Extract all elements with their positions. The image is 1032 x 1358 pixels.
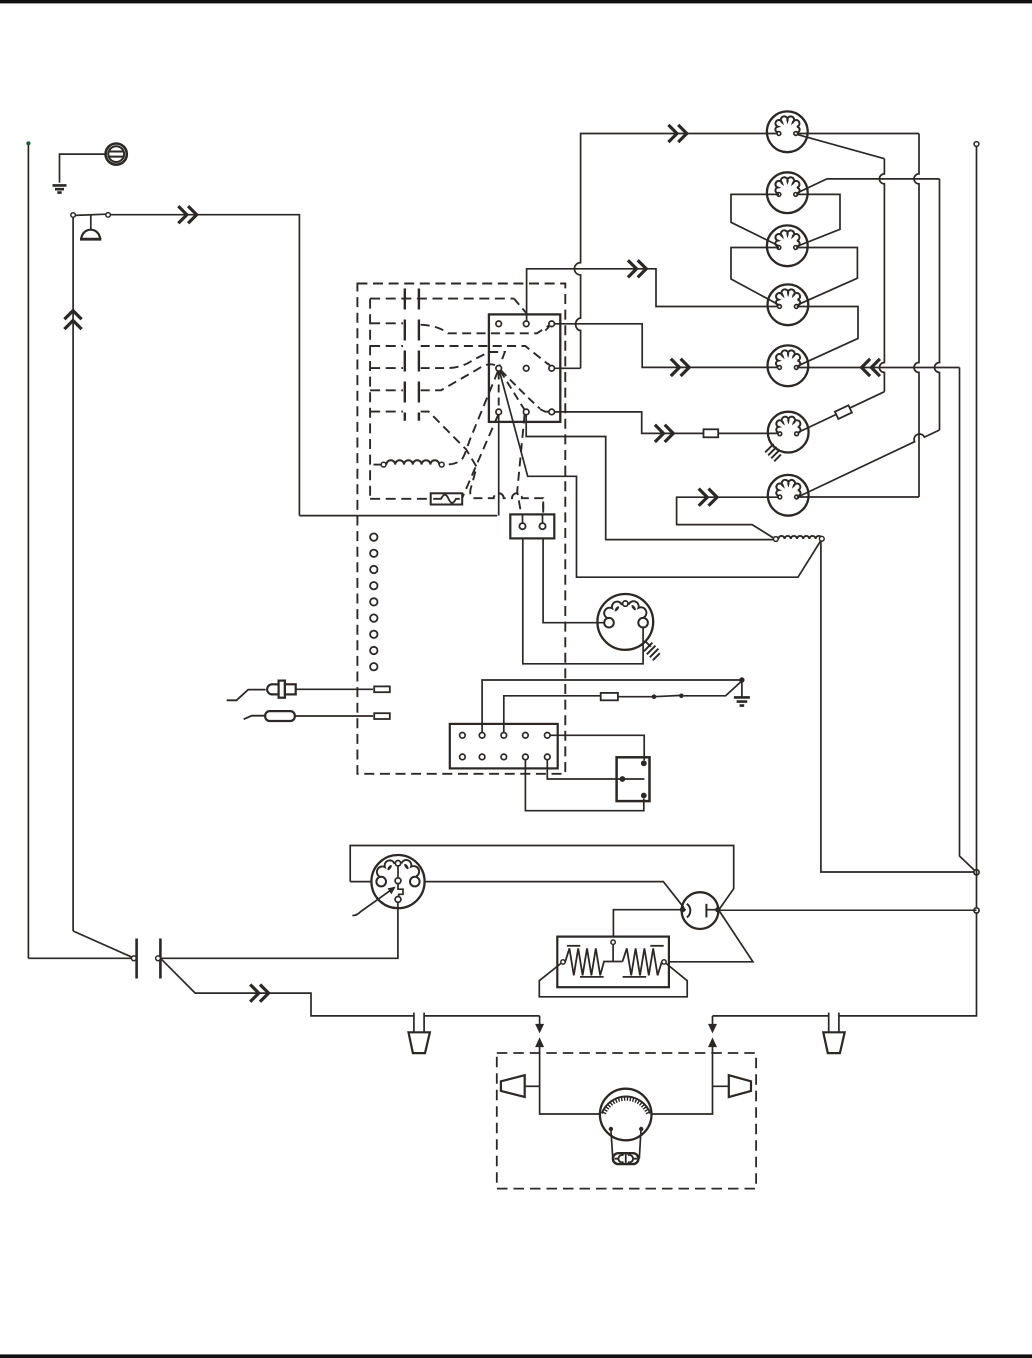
- ignition switch terminal T6: [549, 366, 555, 372]
- MT lead right: [639, 1130, 641, 1159]
- FP right lead: [706, 909, 715, 911]
- FP right contact bar: [705, 904, 707, 918]
- G1 stepped link: [398, 884, 403, 897]
- wire feed to starter arrow left: [539, 1016, 541, 1025]
- lamp L5: [768, 345, 809, 386]
- spark plug probe PR1 body: [285, 684, 296, 694]
- G1 left pin: [376, 877, 386, 887]
- T9 contact stub: [540, 409, 549, 412]
- dashed row2 to T3: [421, 325, 549, 334]
- cone terminal CT1: [501, 1075, 525, 1097]
- ignition coil W1 lead dash: [374, 464, 381, 466]
- wire T4 solid to magneto: [499, 371, 820, 577]
- 2pin connector C2 body: [510, 514, 554, 538]
- node ground junction J3: [739, 677, 744, 682]
- wire lamp7 left from magneto: [677, 497, 779, 538]
- C10 pin2 stub: [481, 724, 483, 733]
- terminal lug LG2: [374, 713, 390, 719]
- MT thermal capsule: [613, 1153, 639, 1164]
- bottom border rule: [0, 1354, 1032, 1358]
- spark plug probe PR1 collar: [279, 681, 285, 698]
- wire horn to frame: [110, 215, 299, 516]
- connector CN5 chevrons: [671, 359, 689, 376]
- ignition switch terminal T2: [523, 321, 529, 327]
- stator C5 right pin: [638, 618, 648, 628]
- connector arrow up left: [536, 1039, 543, 1047]
- ignition switch terminal T7: [496, 409, 502, 415]
- dashed row6 to 2pin connector: [421, 412, 544, 515]
- wire left feed into motor: [540, 1045, 600, 1114]
- interlock S1 left contact: [131, 956, 136, 961]
- wire FP left to resistor top: [613, 910, 682, 940]
- circuit breaker CB1 element: [433, 495, 460, 503]
- magneto coil MG winding: [778, 536, 821, 539]
- interlock S1 right contact: [156, 956, 161, 961]
- dashed T8 to 2pin connector: [517, 415, 524, 515]
- wire FP right to J2: [718, 909, 977, 911]
- R1 mounting bracket: [539, 964, 687, 997]
- ignition switch terminal T5: [523, 366, 529, 372]
- FP left lead: [684, 909, 686, 911]
- stator connector C5 body: [597, 594, 653, 650]
- node switch pivot: [652, 694, 657, 699]
- connector CN6b inline plug: [704, 429, 719, 437]
- module M1 body: [617, 757, 650, 801]
- lamp L6: [768, 412, 809, 453]
- connector CN7 chevrons: [668, 125, 686, 142]
- wire gauge left pin: [350, 881, 371, 883]
- spark plug probe PR1 lead: [227, 690, 266, 701]
- G1 pointer head: [388, 887, 395, 893]
- ignition switch terminal T8: [523, 409, 529, 415]
- vertical B with hops: [914, 134, 919, 498]
- G1 bottom pin: [395, 897, 401, 903]
- wire P1 to ground: [60, 154, 106, 183]
- switch blade: [654, 695, 681, 696]
- wire T2 up to harness: [527, 269, 779, 321]
- ladder row6 dashed: [370, 411, 403, 413]
- dashed row5 to T4: [421, 364, 497, 390]
- wire horn branch down: [72, 217, 74, 931]
- pin terminal cone PL2: [823, 1032, 844, 1053]
- connector CN10 chevrons: [699, 489, 717, 506]
- dashed T4 fan to T7: [498, 372, 500, 409]
- wire left bus to interlock: [28, 957, 131, 959]
- 2pin C2 pin2 stub: [542, 514, 544, 523]
- wire C10 pin5 top to module: [550, 735, 644, 760]
- wire lamp1 feed from T6 riser: [574, 134, 779, 369]
- G1 top pin link: [397, 866, 399, 877]
- stator C5 pole mark left: [614, 605, 620, 612]
- connector arrow down right: [709, 1024, 716, 1032]
- G1 winding garland: [377, 860, 395, 876]
- G1 center pin: [395, 878, 401, 884]
- vertical C with hop: [935, 179, 940, 430]
- ladder row2 dashed: [370, 322, 403, 324]
- MT commutator arc: [602, 1097, 651, 1114]
- wire T7 down-left: [498, 415, 500, 516]
- G1 pole mark right: [403, 863, 409, 870]
- MT brush dot right: [639, 1127, 643, 1131]
- wire T9 to lamp6: [555, 412, 779, 434]
- connector CN4 chevrons: [628, 260, 646, 277]
- pin terminal cone PL1 stem: [414, 1013, 424, 1033]
- stator C5 ground stub: [645, 641, 651, 647]
- ladder row3 dashed: [370, 345, 403, 347]
- FP left contact arc: [687, 904, 690, 918]
- R1 top terminal: [611, 940, 615, 944]
- power point P1 inner ring: [108, 146, 124, 162]
- right cone terminal bar: [713, 1085, 729, 1087]
- wire lamp7 right to vertical B: [797, 496, 919, 498]
- pin terminal cone PL1: [409, 1032, 430, 1053]
- wire stator left pin to 2pin: [543, 529, 604, 622]
- connector arrow down left: [536, 1024, 543, 1032]
- lamp L2: [767, 172, 808, 213]
- connector CN2 chevrons up: [64, 311, 81, 329]
- wire lamp2 right loop to lamp3: [796, 194, 840, 246]
- ignition switch body: [489, 314, 560, 422]
- horn H1 stem: [90, 216, 92, 230]
- wire vertical E: [713, 146, 977, 1016]
- cone terminal CT2: [729, 1075, 751, 1097]
- dashed stub into pin2: [542, 502, 544, 515]
- T3 contact stub: [545, 327, 549, 331]
- wire interlock to engine harness: [162, 959, 540, 1016]
- switched lead line B: [504, 696, 601, 733]
- connector CN3 chevrons: [250, 985, 268, 1002]
- fused lead line A: [482, 680, 740, 733]
- lamp L1: [767, 111, 808, 152]
- wire J3 ground drop: [741, 680, 743, 697]
- wire lamp3 left loop to lamp4: [731, 248, 780, 306]
- vertical E with top terminal: [974, 142, 979, 147]
- pin terminal cone PL2 stem: [829, 1013, 839, 1033]
- temp probe PR2 lead: [244, 716, 266, 720]
- R1 right terminal: [662, 960, 666, 964]
- wire horn top link: [75, 214, 105, 215]
- wire diagonal to interlock: [73, 931, 132, 957]
- MT capsule contacts: [615, 1153, 638, 1164]
- wire right feed into motor: [652, 1045, 713, 1114]
- G1 pointer arrow: [352, 890, 390, 915]
- spark plug probe PR1 boot: [267, 684, 279, 694]
- ignition coil W1 right terminal: [439, 462, 444, 467]
- wire feed to starter arrow right: [712, 1016, 714, 1025]
- stator C5 pole mark right: [631, 604, 637, 611]
- wire lamp1 to vertical B: [796, 133, 919, 135]
- circuit breaker CB1 body: [431, 493, 463, 504]
- vertical A with hops: [879, 159, 884, 392]
- dashed row4 to T4: [421, 352, 505, 368]
- ladder left rail: [404, 289, 406, 421]
- dashed T4 fan to T9: [501, 370, 540, 409]
- node horn junction: [71, 213, 76, 218]
- module M1 pin top: [641, 760, 647, 766]
- lamp L3: [767, 225, 808, 266]
- wire A diagonal to lamp6: [797, 392, 885, 433]
- ignition switch terminal T9: [549, 409, 555, 415]
- MT lead left: [611, 1130, 613, 1159]
- connector CN9 chevrons left: [862, 359, 880, 376]
- wire lamp1 diagonal to vertical A: [798, 135, 885, 159]
- fuse F1: [601, 693, 618, 700]
- interlock switch S1 right bar: [159, 939, 162, 979]
- wire left bus vertical: [27, 145, 29, 958]
- wire lamp4 right loop to lamp5: [797, 307, 858, 367]
- ladder row4 dashed: [370, 367, 403, 369]
- ladder right rail: [418, 289, 420, 421]
- MT commutator teeth: [602, 1097, 649, 1114]
- hour meter G1 body: [371, 855, 424, 908]
- R1 left terminal: [561, 960, 565, 964]
- dashed T4 to ignition coil: [444, 371, 498, 465]
- ignition coil W1 left terminal: [381, 462, 386, 467]
- stator C5 left pin: [604, 618, 614, 628]
- dashed T4 fan to T8: [500, 371, 524, 410]
- 2pin C2 pin1: [519, 523, 525, 529]
- node switch throw: [679, 694, 684, 699]
- magneto coil MG left terminal: [773, 537, 778, 542]
- power point P1 outer ring: [106, 144, 127, 165]
- magneto coil MG right terminal: [819, 536, 824, 541]
- ladder bottom row dashed: [370, 498, 431, 500]
- C10 pins row1: [460, 733, 550, 739]
- wire gauge right pin to pump: [425, 882, 685, 908]
- 10pin connector C10 body: [450, 724, 558, 769]
- power point P1 element bars: [109, 152, 124, 157]
- node junction J1: [974, 870, 979, 875]
- C10 pins row2: [460, 754, 550, 760]
- dashed row3 to T6: [421, 346, 549, 365]
- fuel pump FP body: [682, 892, 719, 929]
- wire interlock to hourmeter: [160, 903, 398, 959]
- terminal lug LG1: [374, 686, 390, 692]
- MT brush dot left: [609, 1127, 613, 1131]
- node battery feed dot (green): [26, 141, 30, 145]
- wire lamp2 left loop to lamp3: [731, 194, 779, 246]
- wire switch to ground junction: [684, 681, 742, 696]
- G1 top pin: [395, 861, 400, 866]
- ignition coil W1 winding: [386, 460, 439, 464]
- node FP left terminal: [680, 907, 685, 912]
- node FP right terminal: [715, 907, 720, 912]
- wire frame run to key switch T7: [299, 515, 497, 517]
- G1 right pin: [410, 877, 420, 887]
- chassis ground hatch at stator: [644, 643, 660, 661]
- wire T3 to lamp5: [555, 324, 779, 368]
- wire C10 pin4 bottom to module: [525, 760, 643, 811]
- dashed link top row to T2: [514, 299, 526, 313]
- ground GND2: [734, 697, 750, 705]
- R1 top terminal lead: [612, 944, 614, 961]
- temp probe PR2 body: [265, 711, 295, 721]
- connector arrow up right: [709, 1039, 716, 1047]
- ignition switch terminal T1: [496, 321, 502, 327]
- ladder row5 dashed: [370, 389, 403, 391]
- R1 tap bar top right: [650, 945, 663, 947]
- chassis ground hatch at lamp6: [765, 444, 781, 461]
- starter motor dashed enclosure: [497, 1053, 756, 1189]
- node junction J2: [974, 908, 979, 913]
- stator C5 winding garland: [604, 602, 622, 618]
- wire T8 to magneto left: [526, 415, 773, 540]
- C10 pin3 stub: [503, 724, 505, 733]
- harness dashed box: [357, 284, 565, 774]
- R1 element right: [623, 948, 662, 975]
- wire C diagonal to lamp7 with hop: [798, 430, 940, 497]
- connector CN6 chevrons: [655, 425, 673, 442]
- module M1 pin mid: [620, 776, 626, 782]
- wire gauge loop top: [350, 846, 734, 909]
- wire PR2 lead to terminal: [295, 715, 373, 717]
- R1 tap bar top left: [567, 945, 580, 947]
- key switch ladder frame dashed: [369, 299, 371, 499]
- wire lamp5 right to vertical D: [797, 367, 960, 369]
- top border rule: [0, 0, 1032, 3]
- wire fuse to switch: [618, 696, 652, 698]
- wire lamp2 diagonal to vertical C: [798, 179, 940, 193]
- lamp L4: [768, 284, 809, 325]
- G1 pole mark left: [387, 864, 393, 871]
- wire FP right to resistor: [668, 912, 753, 962]
- 2pin C2 pin2: [539, 523, 545, 529]
- connector CN8 inline plug on diagonal: [835, 405, 852, 419]
- ignition switch terminal T3: [549, 321, 555, 327]
- left cone terminal bar: [525, 1085, 540, 1087]
- resistor assembly R1 body: [557, 937, 669, 988]
- vertical D: [960, 368, 977, 873]
- ignition switch terminal T4: [496, 366, 502, 372]
- horn H1 dome: [81, 230, 100, 239]
- wire lamp3 right loop to lamp4: [796, 248, 857, 306]
- dashed T7 to breaker: [462, 415, 498, 498]
- R1 tap bar bottom left: [580, 976, 604, 978]
- wire C10 pin5 bottom to module: [547, 760, 644, 779]
- wire T6 to lamp1 drop: [555, 367, 581, 369]
- ground GND1: [53, 185, 67, 192]
- wire PR1 lead to terminal: [296, 688, 373, 690]
- starter motor MT body: [600, 1089, 652, 1141]
- node horn terminal: [106, 213, 111, 218]
- wire magneto right down to junction: [821, 541, 977, 872]
- harness stud row: [370, 533, 377, 670]
- key switch ladder top row dashed: [370, 298, 514, 300]
- stator C5 top pin: [623, 601, 628, 606]
- 2pin C2 pin1 stub: [522, 514, 524, 523]
- interlock switch S1 left bar: [135, 939, 138, 979]
- wire stator right pin to 2pin: [523, 529, 643, 664]
- T6 contact stub: [548, 363, 550, 366]
- R1 tap bar bottom right: [623, 976, 647, 978]
- module M1 pin bottom: [641, 793, 647, 799]
- connector CN1 chevrons: [178, 206, 196, 223]
- horn H1 base: [80, 238, 101, 241]
- R1 element left: [565, 948, 622, 975]
- lamp L7: [768, 475, 809, 516]
